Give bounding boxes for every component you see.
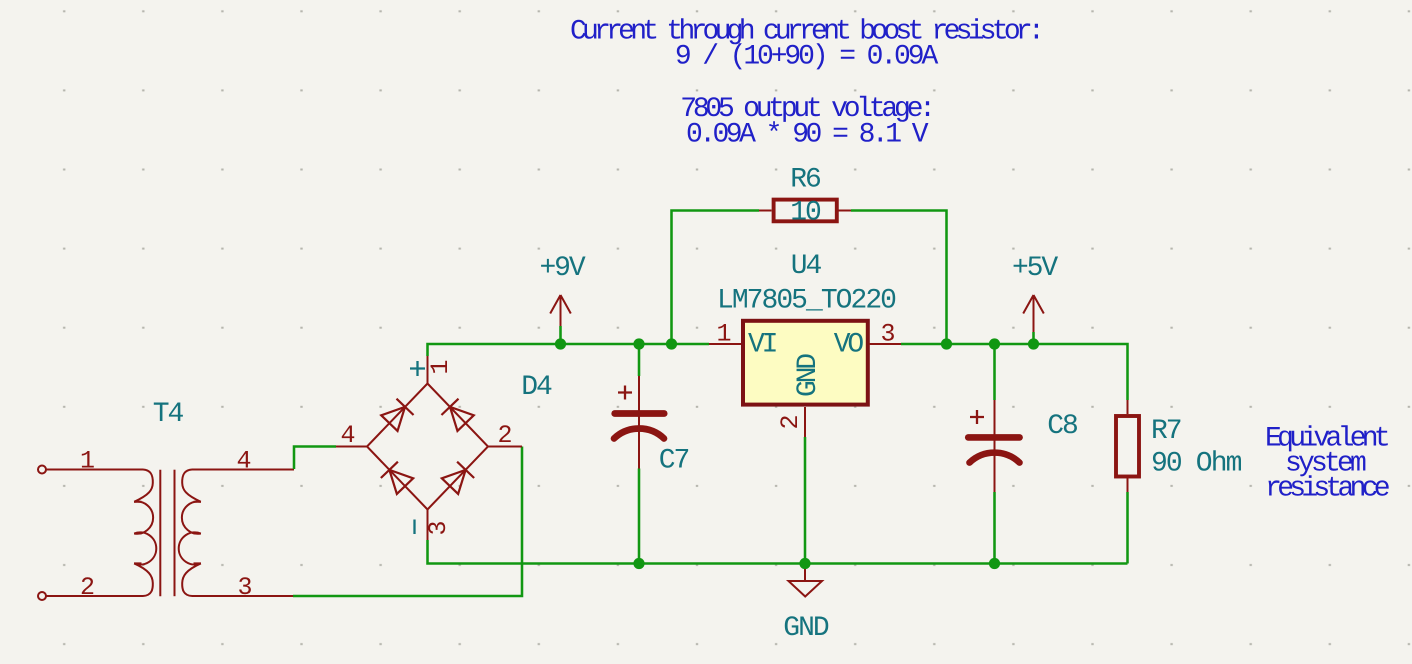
svg-text:C8: C8 <box>1047 411 1077 442</box>
svg-text:4: 4 <box>340 421 355 450</box>
capacitor C7 <box>614 344 664 564</box>
junction C7 bottom <box>633 558 644 569</box>
wire +9V stub <box>559 326 562 344</box>
resistor R7 <box>1116 400 1139 564</box>
transformer T4 <box>38 466 294 601</box>
diode D4 bottom-right <box>441 462 474 495</box>
D4 plus mark <box>410 361 425 376</box>
R6 body <box>774 200 837 222</box>
svg-text:10: 10 <box>790 198 821 229</box>
note: equivalent system resistance <box>1265 424 1389 505</box>
diode D4 top-left <box>381 399 414 432</box>
wire R6 left leg <box>672 211 760 345</box>
D4 pin 2 stub <box>488 446 522 448</box>
R7 pin stubs <box>1127 400 1129 492</box>
C8 pin <box>994 400 996 492</box>
U4 pin stubs <box>709 344 901 437</box>
svg-text:GND: GND <box>783 613 829 644</box>
C8 negative plate <box>970 453 1020 463</box>
wire R7 bottom <box>1126 492 1129 564</box>
resistor R6 <box>672 200 947 344</box>
wire T4 pin4 to bridge <box>294 447 336 470</box>
junction dots <box>555 338 1039 569</box>
svg-text:GND: GND <box>793 354 824 397</box>
junction R6 left <box>666 338 677 349</box>
U4 body <box>743 321 868 405</box>
wire bridge pin1 to U4 input rail <box>428 344 710 356</box>
C7 pin <box>638 376 640 469</box>
svg-text:VO: VO <box>834 330 864 361</box>
svg-text:90 Ohm: 90 Ohm <box>1151 449 1242 480</box>
wire +5V stub <box>1032 332 1035 344</box>
T4 pin 3 lead <box>192 595 293 597</box>
bridge rectifier D4 <box>336 352 522 540</box>
svg-text:1: 1 <box>716 320 731 349</box>
junction +5V rail <box>1028 338 1039 349</box>
D4 pin 4 stub <box>336 446 367 448</box>
svg-text:C7: C7 <box>659 446 689 477</box>
diode D4 top-right <box>441 399 474 432</box>
svg-text:U4: U4 <box>791 251 822 282</box>
wire bottom ground rail <box>428 540 1128 564</box>
svg-text:+9V: +9V <box>539 253 585 284</box>
wire output rail <box>901 344 1128 400</box>
svg-text:LM7805_TO220: LM7805_TO220 <box>717 286 896 317</box>
svg-text:1: 1 <box>426 359 455 374</box>
junction +9V rail <box>555 338 566 349</box>
D4 pin 3 stub <box>427 510 429 541</box>
junction C8 top <box>989 338 1000 349</box>
T4 winding cusp ticks <box>134 502 142 564</box>
T4 pin 2 open end <box>38 592 46 600</box>
svg-text:2: 2 <box>776 414 805 429</box>
svg-text:R7: R7 <box>1151 416 1181 447</box>
T4 primary winding <box>134 470 153 502</box>
C8 positive plate <box>968 434 1019 441</box>
GND triangle <box>789 581 823 597</box>
svg-text:0.09A * 90 = 8.1 V: 0.09A * 90 = 8.1 V <box>686 120 929 151</box>
junction C7 top <box>633 338 644 349</box>
svg-text:+5V: +5V <box>1012 253 1058 284</box>
svg-text:D4: D4 <box>521 372 552 403</box>
T4 pin 2 lead <box>46 595 143 597</box>
D4 diamond outline <box>367 384 488 510</box>
svg-text:3: 3 <box>880 320 895 349</box>
capacitor C8 <box>968 344 1019 564</box>
wire T4 pin3 to bridge pin2 <box>293 447 522 597</box>
junction GND rail <box>799 558 810 569</box>
GND pin stub <box>804 564 806 582</box>
D4 minus mark <box>413 520 415 535</box>
+9V arrow <box>550 295 571 326</box>
T4 pin 1 open end <box>38 466 46 474</box>
wire C7 top <box>638 344 641 376</box>
junction C8 bottom <box>989 558 1000 569</box>
C8 plus mark <box>970 410 984 424</box>
power symbol +9V <box>539 253 585 344</box>
note: current calculation text <box>570 17 1040 151</box>
wire R6 right leg <box>851 211 947 345</box>
T4 pin 1 lead <box>46 469 143 471</box>
wire C7 bottom <box>638 469 641 564</box>
svg-text:VI: VI <box>748 330 777 361</box>
C7 plus mark <box>618 386 632 400</box>
T4 pin 4 lead <box>192 469 294 471</box>
svg-text:R6: R6 <box>790 165 820 196</box>
D4 pin 1 stub <box>427 352 429 384</box>
svg-text:9 / (10+90) = 0.09A: 9 / (10+90) = 0.09A <box>675 42 939 73</box>
svg-text:3: 3 <box>424 520 453 535</box>
svg-text:1: 1 <box>80 447 95 476</box>
svg-text:T4: T4 <box>153 399 184 430</box>
regulator U4 <box>709 321 901 437</box>
T4 core <box>159 470 161 597</box>
wire U4 pin2 to ground rail <box>804 437 807 564</box>
+5V arrow <box>1023 295 1044 332</box>
R6 pin stubs <box>759 210 851 212</box>
T4 secondary winding <box>182 470 201 502</box>
svg-text:4: 4 <box>236 447 251 476</box>
ground symbol GND <box>783 564 829 645</box>
wire C8 top <box>993 344 996 400</box>
wire C8 bottom <box>993 492 996 564</box>
diode D4 bottom-left <box>381 462 414 495</box>
C7 positive plate <box>615 410 665 417</box>
power symbol +5V <box>1012 253 1058 344</box>
svg-text:2: 2 <box>497 421 512 450</box>
junction R6 right <box>941 338 952 349</box>
C7 negative plate <box>614 429 664 439</box>
R7 body <box>1116 416 1139 477</box>
svg-text:3: 3 <box>237 573 252 602</box>
svg-text:2: 2 <box>80 573 95 602</box>
svg-text:resistance: resistance <box>1265 474 1389 505</box>
